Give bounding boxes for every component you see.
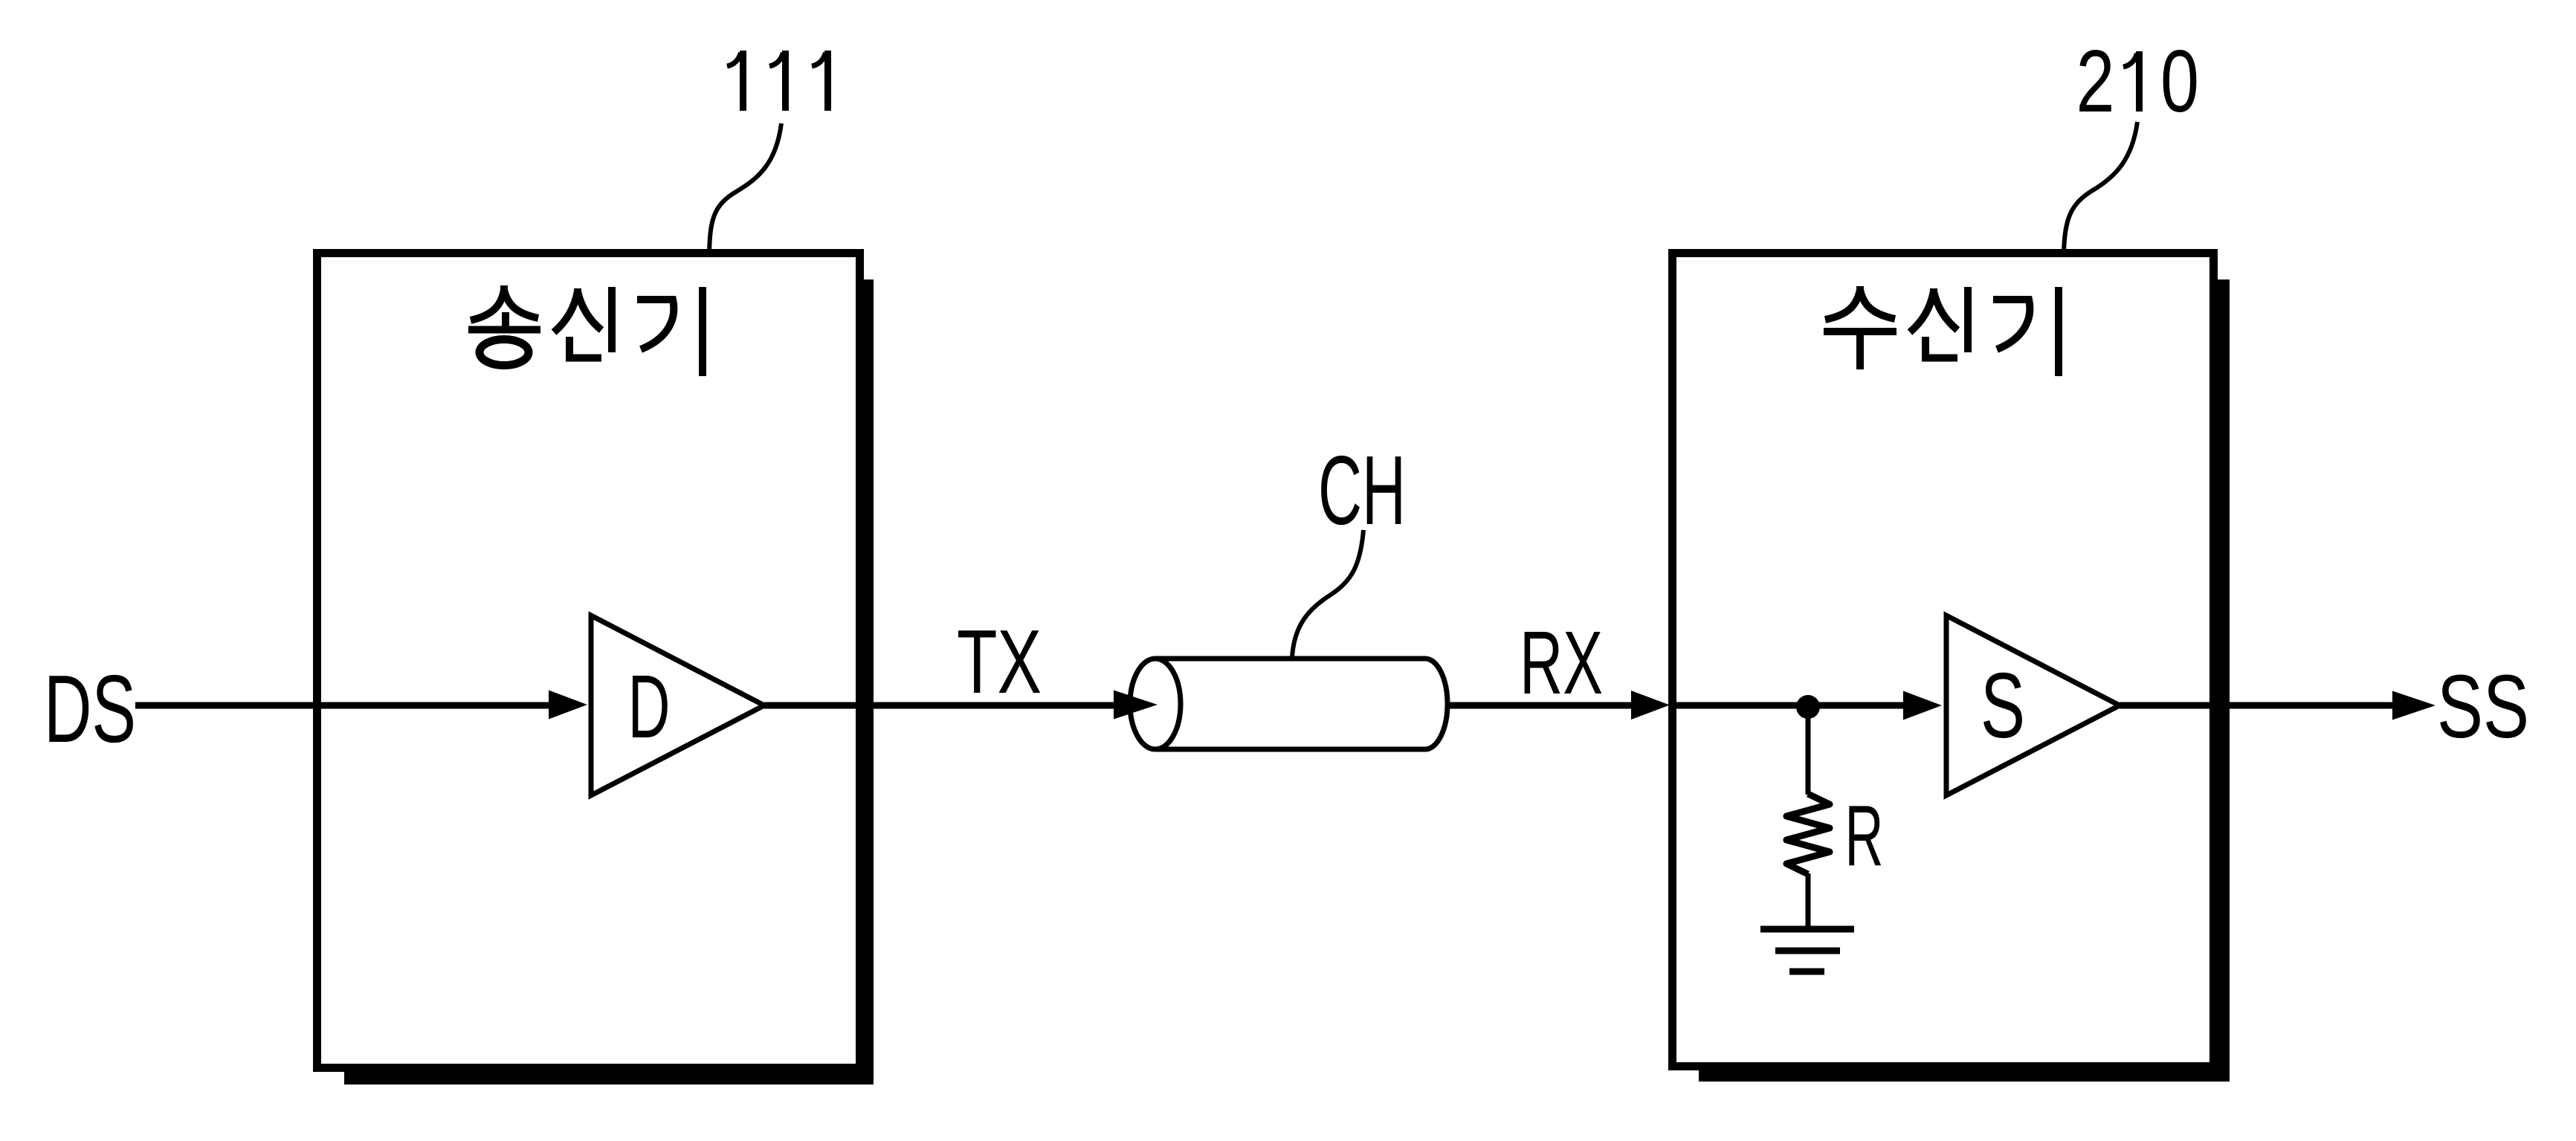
wire sampler output SS [2120,702,2395,709]
arrow into driver D [549,691,587,720]
receiver block 210 (box) [1673,253,2214,1067]
svg-text:CH: CH [1318,436,1406,545]
reference numeral 111 [727,51,828,111]
wire D output TX [764,702,1119,709]
wire DS to driver D [135,702,554,709]
svg-text:R: R [1845,787,1884,884]
svg-text:0: 0 [2160,32,2199,131]
node junction dot [1796,695,1820,719]
svg-text:S: S [1981,655,2025,757]
arrow into sampler S [1903,691,1942,720]
resistor R (zigzag) [1786,794,1830,874]
channel CH (cylinder) [1130,659,1447,749]
receiver title hangul 기 [1993,287,2059,376]
receiver title hangul 신 [1910,287,1968,358]
leader line for 111 [709,123,781,253]
transmitter block 111 (box) [317,253,860,1068]
wire channel output RX [1447,702,1634,709]
receiver box bottom shadow [1699,1070,2230,1082]
op-amp D (driver triangle) [591,615,764,795]
transmitter title hangul 신 [554,287,612,358]
wire resistor to ground [1806,873,1811,929]
arrow into channel [1114,691,1158,720]
wire inside receiver to sampler [1673,702,1905,709]
svg-text:DS: DS [44,656,136,763]
arrow into receiver box [1631,691,1670,720]
transmitter title hangul 송 [468,285,540,366]
transmitter box right shadow [864,279,874,1085]
arrow to SS [2392,691,2435,720]
leader line for CH [1292,530,1363,659]
ground [1760,929,1854,972]
svg-text:RX: RX [1520,612,1603,713]
leader line for 210 [2064,122,2137,253]
svg-text:TX: TX [957,611,1042,712]
receiver title hangul 수 [1824,286,1897,369]
transmitter title hangul 기 [637,287,703,376]
transmitter box bottom shadow [344,1072,874,1085]
svg-text:D: D [628,656,671,757]
svg-text:SS: SS [2437,656,2529,757]
svg-text:2: 2 [2076,32,2115,131]
op-amp S (sampler triangle) [1946,615,2120,795]
wire node to resistor [1806,707,1811,795]
receiver box right shadow [2218,279,2230,1082]
